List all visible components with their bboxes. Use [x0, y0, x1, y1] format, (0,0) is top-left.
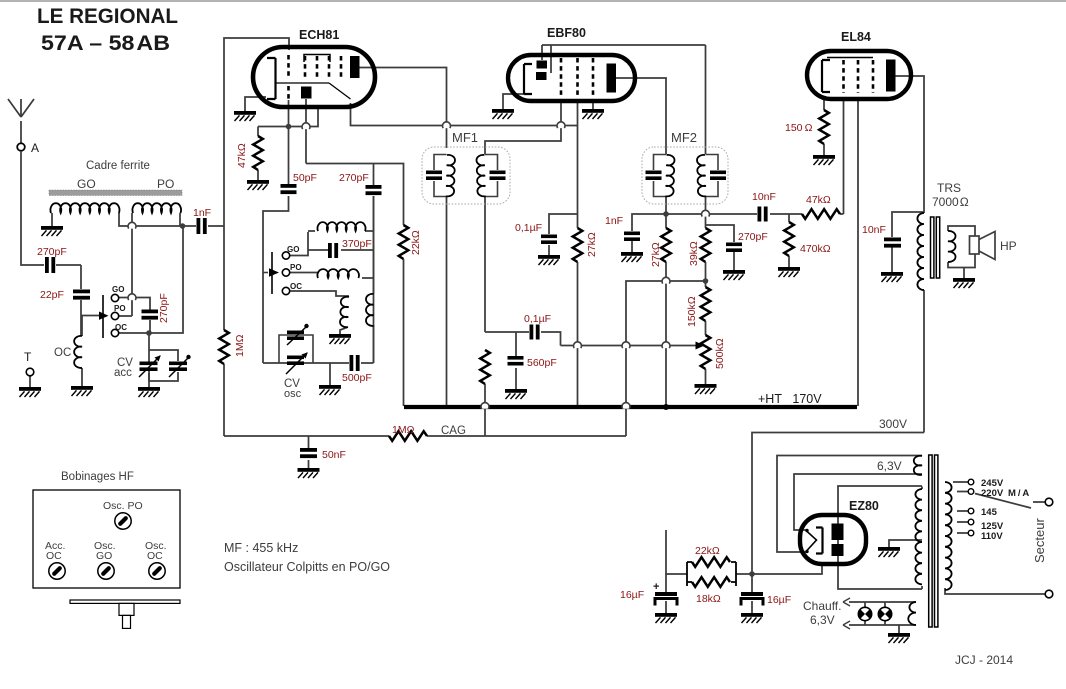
resistor 470k: [784, 222, 794, 256]
wire EL84 anode to TRS: [895, 76, 924, 213]
transformer secteur primary: [945, 482, 952, 590]
resistor 150R: [819, 110, 829, 144]
wire EBF80 anode to MF2 primary: [616, 78, 666, 154]
capacitor 560pF: [508, 356, 524, 366]
ground T terminal: [19, 387, 41, 397]
node A: [17, 143, 25, 151]
svg-text:Cadre ferrite: Cadre ferrite: [86, 160, 150, 172]
box bobinages: [33, 490, 180, 588]
ECH81 interior shield line: [276, 82, 329, 84]
resistor 27k EBF80: [573, 228, 583, 262]
ground CV acc: [138, 387, 160, 397]
ground 10nF TRS: [881, 272, 903, 282]
wire 39k bottom junction: [705, 262, 707, 287]
MF1 secondary cap rails: [485, 155, 498, 197]
wire CV acc trimmer loop: [149, 350, 178, 381]
hop screen line over MF1 primary: [443, 122, 451, 128]
wire EL84 g1 down: [843, 97, 845, 214]
capacitor 10nF TRS: [884, 238, 901, 248]
wire 270pF bottom to tank: [373, 196, 375, 363]
svg-text:50pF: 50pF: [293, 172, 317, 184]
ground EBF80 cathode: [492, 109, 514, 119]
svg-text:270pF: 270pF: [158, 293, 170, 323]
ferrite bar: [49, 190, 182, 196]
capacitor 22pF: [73, 290, 90, 300]
capacitor 16uF right: [741, 592, 763, 596]
ground 1nF det: [621, 252, 643, 262]
tube ECH81 envelope: [253, 47, 375, 107]
coil osc PO: [317, 269, 359, 278]
secteur terminal top: [1045, 498, 1053, 506]
EL84 interior top line: [827, 57, 873, 59]
wire 150k to 500k: [705, 321, 707, 335]
svg-text:6,3V: 6,3V: [810, 613, 835, 627]
variable capacitor CV osc trimmer: [279, 335, 313, 363]
ground HP: [953, 278, 975, 288]
transformer heater winding: [908, 602, 916, 625]
wire GO contact to 270pF: [119, 298, 150, 311]
ground EBF80 g3: [582, 109, 604, 119]
wire g3 stub to AGC dot: [258, 109, 318, 127]
wire heater ground stub: [898, 625, 900, 633]
wire EL84 cathode to 150R: [823, 97, 825, 110]
svg-text:0,1µF: 0,1µF: [524, 313, 551, 325]
wire secteur taps: [953, 482, 968, 533]
ground 500k: [695, 384, 717, 394]
+HT rail: [404, 405, 857, 409]
svg-text:GO: GO: [96, 550, 112, 562]
wire 0,1uF ground stub: [548, 245, 550, 255]
switch osc contact GO: [282, 252, 289, 259]
transformer 6,3V EZ80 winding: [914, 456, 922, 475]
svg-text:10nF: 10nF: [752, 191, 776, 203]
svg-text:39kΩ: 39kΩ: [688, 241, 700, 266]
wire 47k top: [257, 127, 259, 137]
variable capacitor CV osc main: [287, 356, 304, 366]
wire GO tank right: [341, 231, 374, 250]
svg-text:470kΩ: 470kΩ: [800, 243, 831, 255]
svg-text:MF1: MF1: [452, 130, 478, 145]
wire 270pF sw bottom: [149, 320, 151, 333]
wire det out 10nF to 47k: [770, 213, 802, 215]
resistor 27k det: [661, 228, 671, 262]
wire AGC column down to 1M: [223, 226, 225, 330]
ground 16uF right: [741, 613, 763, 623]
resistor 47k: [253, 136, 263, 170]
wire 1nF ground stub: [631, 241, 633, 252]
EBF80 diode plate 1: [537, 61, 548, 69]
svg-text:GO: GO: [77, 177, 96, 191]
EL84 grid dashes: [844, 60, 874, 93]
wire TRS secondary bottom: [948, 254, 975, 268]
wire osc ground stub: [329, 363, 331, 385]
wire cap to junction: [56, 264, 81, 266]
svg-text:22pF: 22pF: [40, 289, 64, 301]
junction dot 1nF node: [180, 223, 186, 229]
capacitor 270pF det: [726, 243, 742, 253]
EZ80 cathode: [816, 528, 823, 554]
svg-text:EBF80: EBF80: [547, 26, 586, 40]
MF2 secondary cap rails: [706, 155, 719, 197]
wire screen line to EBF80: [351, 103, 578, 126]
svg-text:150kΩ: 150kΩ: [686, 296, 698, 327]
wire EBF80 cathode to ground: [503, 94, 524, 109]
trimmer Osc.PO: [115, 513, 131, 529]
switch antenna contact PO: [111, 312, 118, 319]
capacitor 0,1uF g2: [541, 235, 557, 245]
tap terminal 145: [968, 508, 974, 514]
wire heater bottom line bottom: [849, 620, 916, 625]
wire 0,1uF g2 link: [549, 214, 578, 234]
hop g1 line over screen line: [557, 122, 565, 128]
wire CAG line: [224, 435, 626, 437]
wire GO tank link: [308, 231, 328, 250]
svg-text:PO: PO: [290, 263, 302, 272]
wire OC contact line: [119, 226, 183, 333]
ground cadre GO: [41, 226, 63, 236]
wire HP ground stub: [963, 268, 965, 279]
EBF80 cathode: [524, 64, 532, 94]
wire MF2 primary bottom to det node: [665, 196, 667, 228]
svg-text:EZ80: EZ80: [849, 499, 879, 513]
wire CV acc column: [148, 333, 150, 387]
wire TRS primary bottom to 300V: [923, 290, 925, 433]
switch antenna contact GO: [111, 294, 118, 301]
junction dot grid1/AGC: [286, 124, 292, 130]
wire T terminal stem: [29, 376, 31, 387]
wire ECH81 cathode to ground: [245, 97, 266, 111]
tap terminal 110V: [968, 530, 974, 536]
hop volume line over g2 column: [574, 342, 582, 348]
capacitor 50nF: [300, 448, 317, 458]
trimmer Osc.GO: [98, 563, 114, 579]
transformer TRS secondary coil: [948, 231, 956, 262]
transformer TRS primary coil: [917, 213, 924, 290]
lamp 1: [858, 607, 871, 620]
wire osc PO contact to coil: [290, 273, 374, 279]
svg-text:22kΩ: 22kΩ: [410, 230, 422, 255]
switch osc contact PO: [282, 269, 289, 276]
wire 150R to ground: [823, 144, 825, 155]
wire osc GO contact: [290, 250, 309, 256]
wire HV winding ends: [921, 487, 923, 590]
hop det bottom column over +HT: [622, 403, 630, 409]
switch osc contact OC: [282, 287, 289, 294]
transformer HV winding: [915, 489, 922, 584]
coil MF2 primary: [665, 155, 674, 197]
junction dot 39k bottom: [703, 278, 709, 284]
svg-text:300V: 300V: [879, 417, 907, 431]
coil MF2 secondary: [697, 155, 706, 196]
capacitor 1nF det: [624, 232, 640, 242]
hop volume line over 27k2 column: [662, 342, 670, 348]
svg-text:145: 145: [981, 507, 998, 518]
svg-text:Secteur: Secteur: [1032, 518, 1047, 563]
MF1 primary cap rails: [434, 155, 447, 197]
ground 47k: [247, 180, 269, 190]
capacitor 1nF antenna: [197, 218, 207, 234]
EZ80 anode 2: [832, 544, 844, 556]
box MF2: [642, 147, 728, 204]
svg-text:1MΩ: 1MΩ: [392, 424, 415, 436]
resistor 150k: [701, 287, 711, 321]
ground OC coil: [71, 386, 93, 396]
capacitor 0,1uF AVC: [530, 325, 540, 340]
chassis bar: [70, 600, 180, 603]
svg-text:57A – 58 AB: 57A – 58 AB: [41, 32, 170, 55]
tube EL84 envelope: [807, 51, 911, 99]
capacitor 270pF switch: [142, 310, 159, 320]
wire MF2 secondary bottom to 39k: [705, 196, 707, 228]
svg-text:50nF: 50nF: [322, 449, 346, 461]
wire OC coil top: [81, 316, 83, 337]
capacitor 50pF: [281, 184, 297, 194]
svg-text:MF : 455 kHz: MF : 455 kHz: [224, 541, 298, 555]
svg-text:JCJ - 2014: JCJ - 2014: [955, 653, 1013, 667]
ground osc tank: [319, 385, 341, 395]
ground ECH81 cathode: [234, 111, 256, 121]
EZ80 heater: [806, 531, 817, 552]
wire EZ80 plate2 to HV bottom: [838, 564, 922, 589]
svg-text:OC: OC: [147, 550, 163, 562]
svg-text:M / A: M / A: [1008, 488, 1029, 499]
svg-text:270pF: 270pF: [738, 231, 768, 243]
svg-text:OC: OC: [290, 282, 302, 291]
wire AVC node to 0,1uF: [485, 331, 529, 333]
transformer core PSU: [929, 455, 932, 627]
capacitor MF2 secondary: [710, 171, 726, 181]
wire GO coil left end down: [51, 213, 53, 226]
T terminal: [26, 368, 34, 376]
capacitor 270pF antenna: [45, 257, 55, 273]
coil osc GO: [318, 222, 366, 231]
switch osc arm: [271, 252, 273, 294]
svg-text:LE REGIONAL: LE REGIONAL: [37, 5, 178, 28]
svg-text:7000 Ω: 7000 Ω: [932, 195, 969, 209]
svg-text:1MΩ: 1MΩ: [234, 334, 246, 357]
svg-text:Oscillateur Colpitts en PO/GO: Oscillateur Colpitts en PO/GO: [224, 560, 390, 574]
wire heptode anode to MF1: [359, 68, 447, 149]
wire 1nF to AGC column: [208, 225, 224, 227]
wire PO coil right end down: [179, 213, 181, 226]
wire 1M AVC bottom through HT to CAG: [484, 384, 486, 436]
speaker HP: [970, 236, 980, 254]
lamp 2: [878, 607, 891, 620]
wire osc transformer right coil ends: [373, 196, 375, 363]
svg-text:270pF: 270pF: [37, 246, 67, 258]
svg-text:+: +: [653, 581, 659, 593]
tap terminal 245V: [968, 479, 974, 485]
wire g1 bottom to dot to 50pF: [288, 100, 290, 184]
svg-text:27kΩ: 27kΩ: [586, 232, 598, 257]
wire 270pF det link: [706, 225, 735, 242]
ground 560pF: [505, 389, 527, 399]
svg-text:CAG: CAG: [441, 425, 466, 437]
svg-text:150 Ω: 150 Ω: [785, 122, 813, 134]
svg-text:1nF: 1nF: [605, 215, 623, 227]
svg-text:0,1µF: 0,1µF: [515, 222, 542, 234]
svg-text:560pF: 560pF: [527, 357, 557, 369]
wire MF1 secondary top to EBF80 g1: [485, 101, 561, 154]
wire 47k bottom: [257, 170, 259, 180]
wire AGC column to grid top: [224, 38, 289, 226]
svg-text:EL84: EL84: [841, 30, 871, 44]
svg-text:Chauff.: Chauff.: [803, 599, 841, 613]
EBF80 diode plate 2: [536, 72, 547, 80]
svg-text:Bobinages HF: Bobinages HF: [61, 471, 134, 483]
wire osc transformer left coil bottom: [340, 327, 348, 334]
transformer TRS core: [931, 217, 934, 278]
wire 1M bottom to CAG: [223, 364, 225, 436]
junction dot OC/270pF node: [146, 330, 152, 336]
svg-text:OC: OC: [46, 550, 62, 562]
resistor 22k PSU: [687, 562, 736, 586]
junction dot 27k2 +HT: [663, 404, 669, 410]
svg-text:47kΩ: 47kΩ: [806, 194, 831, 206]
hop volume line over AVC det column: [622, 342, 630, 348]
ECH81 heptode anode: [350, 56, 360, 78]
capacitor MF2 primary: [646, 171, 662, 181]
svg-text:A: A: [31, 141, 39, 155]
wire 16uF left stub: [665, 574, 667, 613]
junction dot filter node: [749, 571, 755, 577]
hop AVC column over +HT: [481, 403, 489, 409]
svg-text:270pF: 270pF: [339, 172, 369, 184]
wire secteur bottom: [945, 588, 1045, 594]
wire EBF80 diode plates top: [542, 45, 706, 73]
svg-text:18kΩ: 18kΩ: [696, 593, 721, 605]
wire volume line: [561, 345, 695, 347]
capacitor 10nF det: [758, 207, 768, 222]
ground osc transformer: [329, 334, 351, 344]
wire MF1 secondary bottom: [484, 196, 486, 332]
trimmer Acc.OC: [49, 563, 65, 579]
EBF80 anode: [607, 64, 617, 93]
coil osc feedback right: [366, 294, 374, 326]
svg-text:500pF: 500pF: [342, 372, 372, 384]
hop det bottom link over 27k2 column: [662, 277, 670, 283]
svg-text:1nF: 1nF: [193, 207, 211, 219]
svg-text:6,3V: 6,3V: [877, 459, 902, 473]
wire 10nF TRS ground stub: [891, 245, 893, 272]
wire antenna down: [21, 151, 44, 265]
wire 50nF stub: [308, 436, 310, 468]
svg-text:GO: GO: [112, 285, 124, 294]
svg-text:10nF: 10nF: [862, 224, 886, 236]
coil osc feedback left: [340, 297, 349, 327]
wire diode line down to MF2 secondary: [705, 45, 707, 154]
wire 27k2 to +HT and PSU: [665, 262, 667, 406]
svg-text:MF2: MF2: [671, 130, 697, 145]
junction dot det node: [663, 211, 669, 217]
wire arm horizontal: [81, 315, 99, 317]
ECH81 grid g1 dashes: [287, 55, 290, 99]
wire osc bottom rail: [263, 362, 374, 364]
svg-text:GO: GO: [287, 245, 299, 254]
capacitor MF1 secondary: [490, 171, 506, 181]
svg-text:T: T: [24, 350, 32, 364]
ground 470k: [778, 267, 800, 277]
ground heater winding: [888, 633, 910, 643]
wire filter node to parallel R: [666, 530, 752, 574]
variable capacitor CV acc main: [140, 362, 158, 372]
resistor 1M CAG horizontal: [389, 431, 427, 441]
tube EZ80 envelope: [800, 515, 866, 564]
wire EZ80 plate1 to HV top: [838, 486, 922, 563]
coil PO (cadre): [132, 203, 181, 213]
wire EZ80 cathode down: [752, 562, 822, 574]
resistor 1M AVC: [480, 350, 490, 384]
svg-text:PO: PO: [157, 177, 174, 191]
wire det line left to 1nF: [632, 214, 666, 231]
tap terminal 220V: [968, 489, 974, 495]
svg-text:16µF: 16µF: [620, 589, 644, 601]
hop GO-right wire over PO wire: [128, 222, 136, 228]
resistor 18k PSU: [692, 577, 730, 587]
wire EZ80 heater loop 1: [777, 456, 922, 553]
wire OC coil bottom: [81, 368, 83, 386]
svg-text:370pF: 370pF: [342, 238, 372, 250]
capacitor 500pF: [350, 355, 360, 371]
wire 500k wiper: [694, 345, 696, 347]
secteur terminal bottom: [1045, 590, 1053, 598]
EL84 anode: [886, 60, 896, 92]
ECH81 cathode: [267, 58, 276, 99]
wire 270pF det ground stub: [733, 252, 735, 270]
ECH81 screen grids dashes: [305, 56, 341, 78]
wire anode line to 22k column: [306, 164, 404, 226]
capacitor 270pF osc: [366, 185, 382, 195]
capacitor 370pF: [328, 243, 338, 258]
arrow chauff top: [843, 598, 850, 606]
trimmer Osc.OC: [149, 563, 165, 579]
resistor 22k osc: [399, 225, 409, 259]
wire 50pF bottom to osc left rail: [263, 196, 289, 363]
switch antenna arm: [102, 295, 104, 338]
wire 22pF column: [80, 265, 82, 335]
wire triode anode down: [305, 99, 307, 164]
tube EBF80 envelope: [508, 55, 635, 101]
hop anode drop over AGC stub: [302, 123, 310, 129]
wire EZ80 heater loop 2: [794, 474, 922, 530]
svg-text:220V: 220V: [981, 488, 1004, 499]
hop det line over MF2 secondary: [702, 210, 710, 216]
variable capacitor CV acc trimmer: [169, 362, 187, 372]
wire MF1 primary bottom to +HT: [446, 196, 448, 406]
capacitor 16uF left: [655, 592, 677, 596]
wire 0,1uF to volume line: [541, 332, 561, 346]
ground 50nF: [298, 468, 320, 478]
wire PO left down to PO contact: [119, 213, 132, 316]
ground HV centertap: [878, 547, 900, 557]
coil OC antenna: [74, 336, 82, 368]
svg-text:OC: OC: [54, 347, 71, 359]
wire osc OC contact to transformer: [290, 291, 350, 296]
svg-text:22kΩ: 22kΩ: [695, 545, 720, 557]
wire 10nF TRS top link: [892, 212, 924, 237]
antenna: [8, 99, 34, 143]
wire 270pF osc drop: [373, 164, 375, 186]
coil MF1 primary: [446, 155, 455, 197]
svg-text:acc: acc: [114, 367, 132, 379]
wire 27k EBF80 to +HT: [577, 262, 579, 406]
resistor 1M AGC vertical: [219, 330, 229, 364]
wire 16uF right stub: [751, 574, 753, 613]
wire 500k bottom to ground: [705, 369, 707, 384]
wire 22k bottom to +HT: [403, 259, 405, 406]
wire det line right: [666, 213, 757, 215]
ECH81 screen diagonal to pin: [329, 83, 351, 99]
